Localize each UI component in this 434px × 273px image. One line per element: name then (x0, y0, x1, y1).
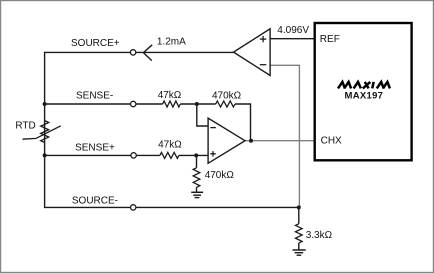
node bus SENSE- junction (43, 102, 47, 106)
svg-text:SOURCE-: SOURCE- (72, 196, 118, 207)
terminal SENSE+ (131, 153, 136, 158)
wire SOURCE- rail left (45, 206, 131, 208)
wire SENSE- rail left (45, 103, 131, 105)
wire R3 to U2 non-inverting input (179, 154, 208, 156)
terminal SOURCE+ (130, 50, 135, 55)
svg-text:4.096V: 4.096V (277, 25, 309, 36)
svg-text:47kΩ: 47kΩ (158, 140, 182, 151)
op-amp U2 (208, 118, 245, 163)
resistor R5 3.3k (296, 224, 333, 243)
resistor R2 470k feedback (212, 90, 242, 107)
wire node to R4 (196, 155, 198, 167)
wire R2 to feedback corner (235, 104, 251, 141)
wire R4 to ground (196, 187, 198, 192)
svg-text:1.2mA: 1.2mA (157, 36, 186, 47)
node R1/R2 junction (195, 102, 199, 106)
terminal SENSE- (131, 101, 136, 106)
wire SENSE+ circle to R3 (136, 154, 160, 156)
wire SOURCE+ rail left (45, 51, 131, 53)
wire node to R5 (298, 207, 300, 223)
wire U1 + input to REF (270, 38, 315, 40)
resistor R3 47k (158, 140, 182, 159)
wire U1 - input down to SOURCE- node (270, 65, 299, 207)
svg-text:SENSE-: SENSE- (76, 90, 113, 101)
terminal SOURCE- (131, 205, 136, 210)
svg-text:RTD: RTD (15, 121, 35, 132)
ground under R5 (293, 250, 306, 255)
wire SENSE- circle to R1 (136, 103, 163, 105)
svg-text:SENSE+: SENSE+ (75, 143, 115, 154)
op-amp U1 (234, 29, 271, 76)
resistor RTD (15, 121, 60, 143)
svg-text:MAX197: MAX197 (345, 90, 384, 101)
svg-text:CHX: CHX (321, 135, 342, 146)
ground under R4 (191, 192, 203, 197)
wire R5 to ground (298, 243, 300, 250)
svg-text:REF: REF (320, 34, 340, 45)
svg-text:SOURCE+: SOURCE+ (71, 38, 120, 49)
current arrow 1.2mA (143, 36, 186, 60)
wire left bus (44, 52, 46, 208)
wire U2 output to CHX (245, 140, 315, 142)
node U2 output junction (249, 139, 253, 143)
node SOURCE- R5 junction (297, 205, 301, 209)
wire SENSE+ rail left (45, 154, 131, 156)
wire SOURCE- rail right (136, 206, 299, 208)
IC U3 MAX197 (315, 23, 412, 160)
MAXIM logo (338, 82, 390, 89)
wire node to U2 inverting input (197, 104, 208, 126)
node R3/R4 junction (194, 153, 198, 157)
wire R1 to R2 (180, 103, 215, 105)
svg-text:3.3kΩ: 3.3kΩ (306, 230, 333, 241)
resistor R1 47k (158, 90, 182, 107)
resistor R4 470k to ground (193, 168, 234, 188)
svg-text:470kΩ: 470kΩ (205, 170, 235, 181)
svg-text:47kΩ: 47kΩ (158, 90, 182, 101)
wire SOURCE+ rail right to op-amp U1 output (136, 51, 234, 53)
svg-text:470kΩ: 470kΩ (212, 90, 242, 101)
node bus SENSE+ junction (43, 153, 47, 157)
